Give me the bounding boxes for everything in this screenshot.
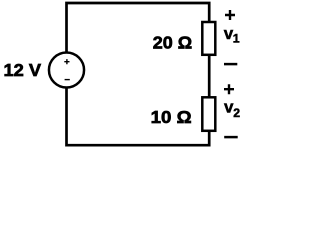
svg-text:2: 2	[233, 106, 240, 120]
v2 polarity plus	[224, 84, 234, 94]
voltage source V1 12V circle	[49, 52, 84, 87]
label 10 ohm value	[151, 107, 192, 127]
svg-text:12 V: 12 V	[4, 60, 42, 80]
label v2 node voltage	[224, 97, 240, 120]
resistor R2 10 ohm body	[202, 97, 215, 131]
v1 polarity minus	[224, 63, 237, 66]
wire top: source top to resistor R1 top	[67, 3, 210, 52]
svg-text:1: 1	[233, 32, 240, 46]
resistor R1 20 ohm body	[202, 22, 215, 55]
v1 polarity plus	[225, 10, 235, 20]
voltage source plus sign	[64, 59, 69, 64]
label 12 V value of source	[4, 60, 42, 80]
wire middle: node between R1 and R2	[208, 56, 211, 97]
wire bottom: source bottom to resistor R2 bottom	[67, 88, 210, 145]
svg-text:20 Ω: 20 Ω	[153, 33, 192, 53]
label 20 ohm value	[153, 33, 192, 53]
v2 polarity minus	[224, 136, 238, 139]
label v1 node voltage	[224, 24, 240, 46]
svg-text:10 Ω: 10 Ω	[151, 107, 192, 127]
voltage source minus sign	[65, 79, 70, 81]
